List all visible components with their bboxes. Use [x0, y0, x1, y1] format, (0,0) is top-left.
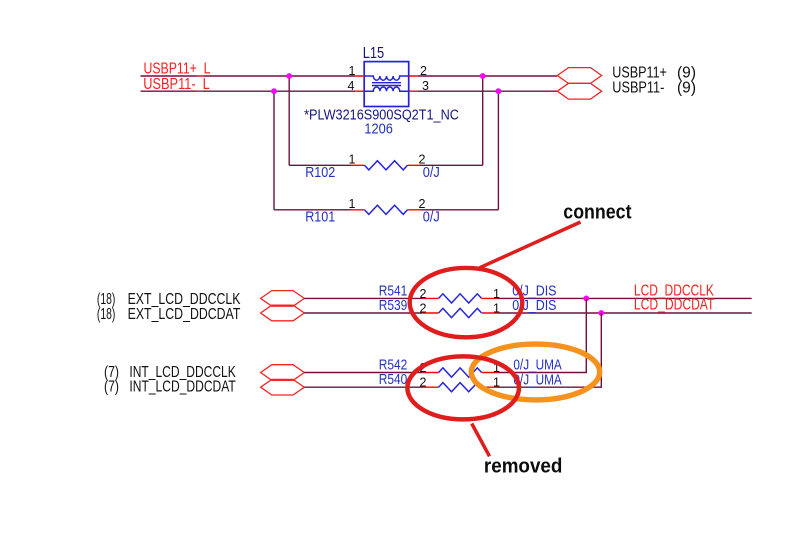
svg-text:USBP11-: USBP11- — [612, 80, 664, 97]
svg-text:0/J: 0/J — [423, 210, 440, 226]
svg-text:0/J_UMA: 0/J_UMA — [513, 358, 562, 374]
svg-text:1: 1 — [493, 376, 500, 390]
wire USBP11+_L horizontal — [141, 75, 558, 77]
annotation arrow from connect to ellipse — [480, 222, 581, 268]
svg-text:(7): (7) — [104, 379, 119, 396]
svg-text:INT_LCD_DDCDAT: INT_LCD_DDCDAT — [129, 379, 236, 396]
svg-text:R101: R101 — [305, 210, 335, 226]
wire vertical left to R101 — [273, 91, 275, 210]
svg-text:3: 3 — [422, 79, 429, 93]
svg-text:EXT_LCD_DDCDAT: EXT_LCD_DDCDAT — [128, 306, 241, 323]
svg-text:1: 1 — [493, 301, 500, 315]
annotation red ellipse around R541 R539 — [410, 268, 523, 337]
svg-text:R541: R541 — [379, 283, 408, 299]
off-page connector EXT_LCD_DDCCLK — [261, 291, 305, 307]
svg-text:removed: removed — [484, 455, 563, 477]
svg-text:R542: R542 — [379, 358, 408, 374]
junction on LCD_DDCDAT — [598, 310, 604, 316]
svg-text:1: 1 — [493, 287, 500, 301]
svg-text:1206: 1206 — [364, 122, 393, 138]
svg-text:2: 2 — [420, 287, 427, 301]
junction on USBP11+_L at x289 — [286, 73, 292, 79]
annotation orange ellipse around 0/J_UMA — [471, 344, 599, 400]
resistor R539 — [304, 308, 751, 317]
resistor R540 — [304, 383, 498, 392]
wire USBP11-_L horizontal — [141, 90, 558, 92]
junction on USBP11-_L at x498 — [496, 88, 502, 94]
annotation arrow from ellipse to removed — [472, 424, 490, 457]
junction on USBP11+_L at x483 — [480, 73, 486, 79]
svg-text:2: 2 — [420, 301, 427, 315]
wire vertical left to R102 — [288, 76, 290, 165]
svg-text:2: 2 — [420, 64, 427, 78]
off-page connector EXT_LCD_DDCDAT — [261, 305, 305, 321]
resistor R102 — [289, 161, 483, 170]
junction on USBP11-_L at x274 — [271, 88, 277, 94]
wire vertical LCD_DDCDAT to R540 — [499, 313, 602, 387]
annotation red ellipse around R542 R540 — [407, 356, 519, 419]
svg-text:LCD_DDCDAT: LCD_DDCDAT — [634, 297, 715, 314]
off-page connector INT_LCD_DDCDAT — [261, 379, 305, 395]
junction on LCD_DDCCLK — [583, 296, 589, 302]
common-mode choke L15 — [355, 62, 417, 107]
svg-text:2: 2 — [420, 376, 427, 390]
svg-text:(18): (18) — [97, 306, 116, 323]
svg-text:(9): (9) — [677, 80, 696, 97]
svg-text:1: 1 — [349, 153, 356, 167]
resistor R101 — [274, 205, 498, 214]
svg-text:connect: connect — [563, 201, 631, 223]
svg-text:R102: R102 — [305, 165, 335, 181]
wire vertical LCD_DDCCLK to R542 — [499, 298, 587, 372]
wire vertical right from R102 — [482, 76, 484, 165]
svg-text:0/J: 0/J — [423, 165, 440, 181]
svg-text:R540: R540 — [379, 372, 408, 388]
off-page connector USBP11+ — [557, 68, 601, 84]
off-page connector INT_LCD_DDCCLK — [261, 365, 305, 381]
svg-text:1: 1 — [349, 197, 356, 211]
svg-text:R539: R539 — [379, 298, 408, 314]
resistor R542 — [304, 368, 498, 377]
wire vertical right from R101 — [497, 91, 499, 210]
svg-text:1: 1 — [349, 64, 356, 78]
svg-text:USBP11-_L: USBP11-_L — [143, 76, 210, 93]
svg-text:4: 4 — [348, 79, 355, 93]
off-page connector USBP11- — [557, 83, 601, 99]
resistor R541 — [304, 294, 751, 303]
svg-text:L15: L15 — [363, 45, 385, 62]
